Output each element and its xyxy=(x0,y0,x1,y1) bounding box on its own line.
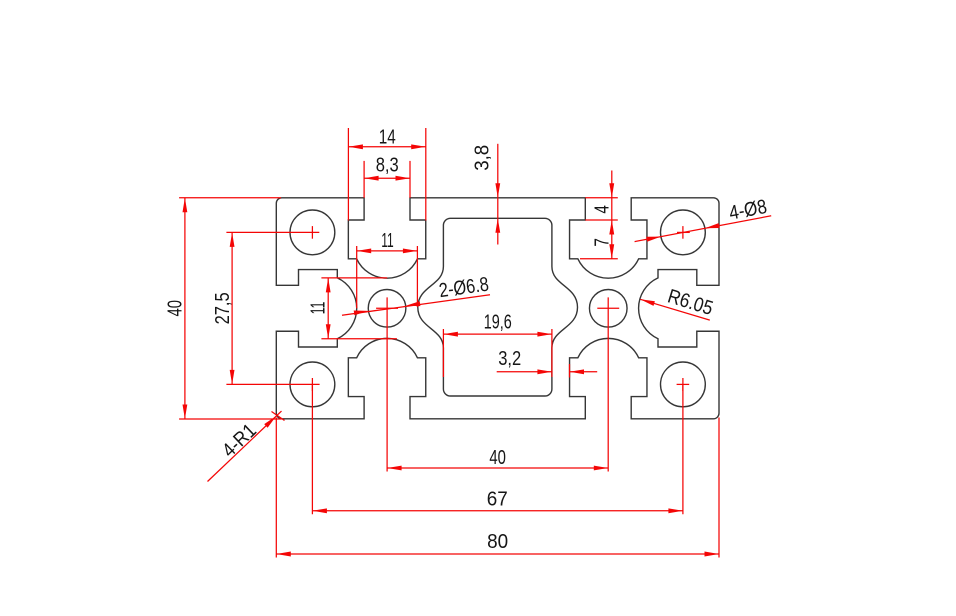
corner hole top-left Ø8 xyxy=(290,210,335,255)
svg-text:7: 7 xyxy=(592,238,614,247)
dimension 67 (corner hole spacing) xyxy=(312,384,683,514)
dimension 19,6 (cavity width) xyxy=(443,311,552,377)
dimension 40 (profile height) xyxy=(164,198,281,419)
svg-text:4-R1: 4-R1 xyxy=(218,420,261,462)
svg-text:11: 11 xyxy=(381,230,394,252)
central cavity xyxy=(418,218,578,396)
svg-text:4-Ø8: 4-Ø8 xyxy=(727,196,768,225)
svg-text:4: 4 xyxy=(591,205,613,214)
dimensions 4 and 7 (slot lip depth and inner depth) xyxy=(580,171,618,259)
dimension 14 (slot T-width) xyxy=(348,127,425,221)
dimension 80 (profile width) xyxy=(276,418,719,558)
center hole right Ø6.8 xyxy=(589,290,627,328)
center hole left Ø6.8 xyxy=(368,290,406,328)
profile outline (80x40 extrusion cross-section) xyxy=(276,198,719,419)
dimension 8,3 (slot opening) xyxy=(364,154,410,198)
label R6.05 (slot bottom radius) xyxy=(640,286,715,321)
svg-text:19,6: 19,6 xyxy=(484,311,512,333)
svg-text:80: 80 xyxy=(487,531,508,553)
corner hole bottom-left Ø8 xyxy=(290,362,335,407)
label 4-Ø8 (corner holes diameter) xyxy=(635,196,772,242)
dimension 3,2 (web thickness) xyxy=(497,348,598,378)
label 4-R1 (corner radius) xyxy=(208,411,285,481)
svg-text:3,2: 3,2 xyxy=(498,348,521,370)
dimension 3,8 (top wall thickness) xyxy=(472,144,501,245)
svg-text:40: 40 xyxy=(489,447,506,469)
dimension 11 (left slot inner width) xyxy=(308,278,397,339)
center mark bottom-left hole xyxy=(226,378,319,391)
center mark bottom-right hole xyxy=(677,378,690,391)
svg-text:11: 11 xyxy=(308,302,330,315)
svg-text:14: 14 xyxy=(379,127,396,149)
dimension 40 (center hole spacing) xyxy=(387,297,608,471)
dimension 11 (top slot inner width) xyxy=(357,230,418,308)
svg-text:67: 67 xyxy=(487,489,508,511)
svg-text:8,3: 8,3 xyxy=(376,154,399,176)
svg-text:2-Ø6.8: 2-Ø6.8 xyxy=(438,274,491,303)
center mark right Ø6.8 hole xyxy=(597,307,619,309)
svg-text:3,8: 3,8 xyxy=(472,145,494,171)
center mark top-left hole xyxy=(226,226,319,239)
svg-text:27,5: 27,5 xyxy=(212,292,234,324)
label 2-Ø6.8 (center holes diameter) xyxy=(342,274,490,316)
center mark top-right hole xyxy=(677,226,690,239)
corner hole bottom-right Ø8 xyxy=(661,362,706,407)
center mark left Ø6.8 hole xyxy=(376,307,398,309)
dimension 27,5 (corner hole vertical spacing) xyxy=(212,232,235,384)
svg-text:40: 40 xyxy=(164,300,186,317)
corner hole top-right Ø8 xyxy=(661,210,706,255)
